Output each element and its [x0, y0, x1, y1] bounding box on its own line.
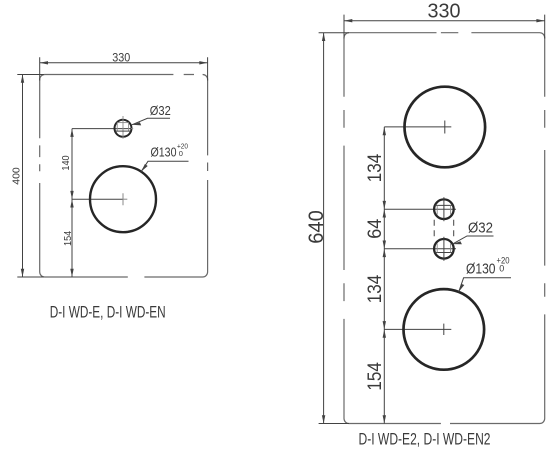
svg-text:0: 0 [179, 149, 183, 158]
dim 640 line [323, 33, 325, 424]
lower small circle details [435, 237, 453, 261]
lower small circle side marks [437, 244, 450, 253]
dim 330 line [40, 62, 208, 64]
dim 400 line [22, 75, 24, 278]
dim 330 extension lines [17, 57, 207, 277]
leader arrowhead d130 right [459, 284, 465, 292]
tangent dashed lines between small circles [434, 220, 454, 239]
arrows dim 330 [21, 61, 208, 277]
bottom big circle center tick [443, 324, 445, 335]
top big circle center tick [444, 121, 446, 134]
leader arrowhead d32 right [453, 241, 462, 244]
chain dim line right [383, 127, 385, 424]
svg-text:140: 140 [60, 155, 72, 170]
big circle d130 [90, 166, 156, 232]
label leader d130 [141, 161, 188, 171]
svg-text:64: 64 [364, 219, 386, 239]
svg-text:Ø130: Ø130 [151, 145, 177, 160]
chain dim line 140/154 [71, 129, 73, 277]
dim 400 extension lines [17, 75, 44, 278]
svg-text:Ø32: Ø32 [150, 103, 171, 118]
svg-text:330: 330 [112, 51, 130, 65]
svg-text:640: 640 [305, 210, 328, 244]
svg-text:154: 154 [62, 231, 74, 246]
small circle chord [115, 130, 130, 132]
svg-text:134: 134 [364, 275, 386, 304]
lower small circle d32 [434, 239, 454, 259]
svg-text:D-I WD-E2, D-I WD-EN2: D-I WD-E2, D-I WD-EN2 [359, 430, 491, 449]
bottom big circle d130 [404, 289, 485, 370]
svg-text:400: 400 [11, 167, 23, 185]
dim 640 extension lines [319, 33, 349, 424]
svg-text:0: 0 [499, 264, 504, 274]
upper small circle side marks [437, 205, 450, 214]
label leader d32 [132, 118, 170, 125]
dim 330 line right [344, 20, 545, 22]
svg-text:154: 154 [364, 362, 386, 391]
arrows dim 400 [21, 75, 24, 83]
svg-text:Ø32: Ø32 [468, 220, 493, 237]
label leader d130 right [459, 278, 511, 292]
leader arrowhead d130 [141, 164, 148, 172]
right panel outline [344, 33, 545, 424]
small circle d32 [115, 120, 132, 137]
left panel outline [40, 75, 208, 278]
texts right [305, 1, 510, 449]
upper small circle details [435, 197, 453, 221]
arrows dim 330 right [322, 19, 545, 424]
svg-text:330: 330 [428, 1, 461, 23]
center/ext lines horizontals [384, 126, 451, 128]
arrows chain right [383, 127, 386, 135]
svg-text:Ø130: Ø130 [466, 260, 496, 277]
svg-text:134: 134 [364, 154, 386, 183]
top big circle d130 [405, 87, 486, 168]
big circle center tick [123, 193, 127, 205]
centerline big circle horizontal [72, 198, 123, 200]
svg-text:D-I WD-E, D-I WD-EN: D-I WD-E, D-I WD-EN [50, 304, 166, 322]
small circle details [117, 116, 133, 139]
texts left [11, 51, 188, 322]
centerline small circle horizontal [72, 128, 131, 130]
dim 330 extension lines right [319, 15, 545, 424]
label leader d32 right [453, 236, 494, 244]
upper small circle d32 [434, 199, 454, 219]
arrows dim 640 [322, 33, 325, 41]
leader arrowhead d32 [132, 122, 141, 125]
arrows chain 140/154 [70, 129, 73, 137]
